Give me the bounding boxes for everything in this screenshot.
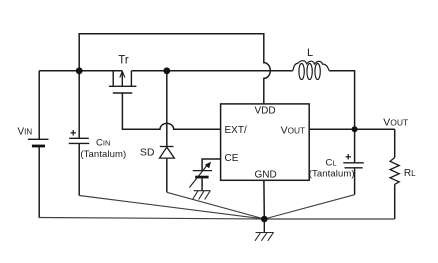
svg-text:SD: SD: [140, 147, 155, 159]
wire: SD anode lead: [166, 158, 168, 192]
ground: CE source ground: [193, 191, 211, 200]
svg-text:EXT/: EXT/: [225, 125, 247, 136]
ground: main system ground: [255, 219, 274, 241]
IC U1: DC/DC converter control IC: [221, 104, 310, 180]
wire: CIN return diagonal to ground junction: [79, 196, 264, 220]
svg-text:(Tantalum): (Tantalum): [80, 149, 126, 160]
svg-text:CIN: CIN: [96, 138, 110, 149]
svg-text:VOUT: VOUT: [281, 125, 305, 137]
svg-text:GND: GND: [255, 169, 277, 180]
wire: LX rail (transistor drain to inductor): [131, 70, 292, 72]
svg-text:RL: RL: [404, 168, 416, 179]
wire: VIN positive lead: [38, 71, 40, 140]
node: VOUT junction dot: [352, 126, 358, 132]
wire: CL bottom lead: [354, 168, 356, 195]
node: VIN junction dot: [76, 67, 83, 74]
wire: VOUT corner down to RL: [394, 129, 396, 157]
svg-text:Tr: Tr: [118, 55, 129, 67]
wire: CL top lead: [354, 129, 356, 163]
svg-text:VIN: VIN: [18, 127, 33, 138]
svg-text:VDD: VDD: [255, 105, 276, 116]
wire: LX to SD cathode: [166, 71, 168, 147]
node: LX junction dot: [163, 67, 170, 74]
wire: VDD supply (riser, top run, drop with hop over LX rail): [79, 34, 270, 104]
wire: RL bottom return to ground junction: [264, 218, 394, 220]
svg-text:CE: CE: [225, 153, 239, 164]
capacitor CIN: [69, 130, 127, 160]
wire: bottom return from VIN to ground junction: [39, 218, 265, 220]
wire: VOUT rail (IC VOUT pin to load corner): [309, 128, 395, 130]
wire: main VIN rail (left segment): [39, 70, 122, 72]
inductor L: [293, 61, 329, 80]
wire: CE pin to level source: [202, 159, 221, 171]
wire: RL bottom lead: [394, 184, 396, 219]
svg-text:L: L: [307, 47, 313, 59]
transistor Tr: [109, 71, 136, 93]
wire: gate of Tr to EXT/ pin (hop over diode branch): [122, 93, 220, 129]
wire: VIN negative lead: [38, 147, 40, 217]
wire: SD return diagonal to ground junction: [167, 192, 264, 219]
capacitor CL: [309, 154, 364, 180]
wire: CE source to ground: [201, 178, 203, 190]
wire: CL return diagonal to ground junction: [264, 195, 354, 219]
resistor RL: [390, 158, 399, 185]
wire: CIN bottom lead: [78, 143, 80, 195]
wire: IC GND pin to ground junction: [263, 180, 265, 219]
wire: CIN top lead: [78, 71, 80, 139]
svg-text:VOUT: VOUT: [383, 117, 408, 129]
diode SD: [160, 147, 175, 159]
node: ground junction dot: [261, 216, 268, 223]
battery VIN: [18, 127, 49, 148]
variable voltage source on CE: [189, 162, 212, 187]
svg-text:CL: CL: [326, 158, 337, 169]
wire: inductor to VOUT node: [329, 71, 354, 129]
svg-text:(Tantalum): (Tantalum): [309, 169, 355, 180]
